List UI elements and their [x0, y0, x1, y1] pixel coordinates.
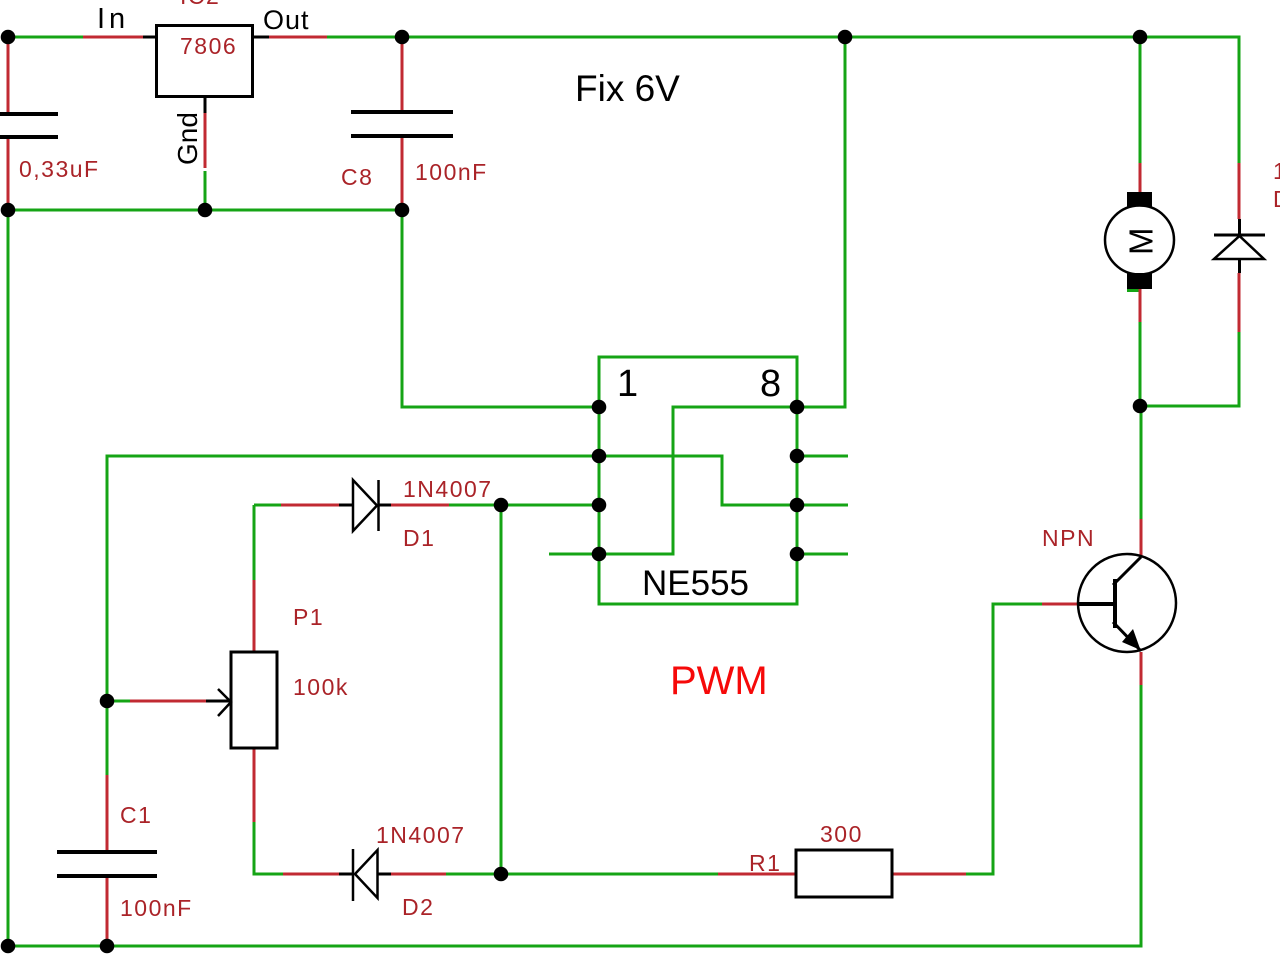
- svg-text:M: M: [1123, 228, 1160, 256]
- svg-text:1N4007: 1N4007: [376, 822, 466, 848]
- svg-text:R1: R1: [749, 850, 781, 876]
- svg-text:100nF: 100nF: [415, 159, 488, 185]
- svg-text:Gnd: Gnd: [172, 112, 203, 165]
- svg-text:NPN: NPN: [1042, 525, 1095, 551]
- svg-text:C1: C1: [120, 802, 152, 828]
- svg-text:NE555: NE555: [642, 564, 749, 603]
- svg-text:IC2: IC2: [180, 0, 220, 9]
- svg-text:Out: Out: [263, 5, 310, 35]
- svg-text:D3: D3: [1273, 186, 1280, 212]
- svg-text:D1: D1: [403, 525, 435, 551]
- svg-text:300: 300: [820, 821, 863, 847]
- svg-text:100k: 100k: [293, 674, 349, 700]
- svg-text:Fix 6V: Fix 6V: [575, 68, 680, 109]
- svg-text:PWM: PWM: [670, 659, 768, 703]
- svg-text:In: In: [97, 3, 129, 35]
- svg-text:D2: D2: [402, 894, 434, 920]
- svg-text:8: 8: [760, 363, 781, 405]
- svg-text:1N4007: 1N4007: [1273, 158, 1280, 184]
- svg-text:1N4007: 1N4007: [403, 476, 493, 502]
- svg-text:1: 1: [617, 363, 638, 405]
- svg-text:C8: C8: [341, 164, 373, 190]
- svg-text:7806: 7806: [180, 33, 237, 59]
- svg-text:100nF: 100nF: [120, 895, 193, 921]
- svg-text:P1: P1: [293, 604, 324, 630]
- svg-text:0,33uF: 0,33uF: [19, 156, 100, 182]
